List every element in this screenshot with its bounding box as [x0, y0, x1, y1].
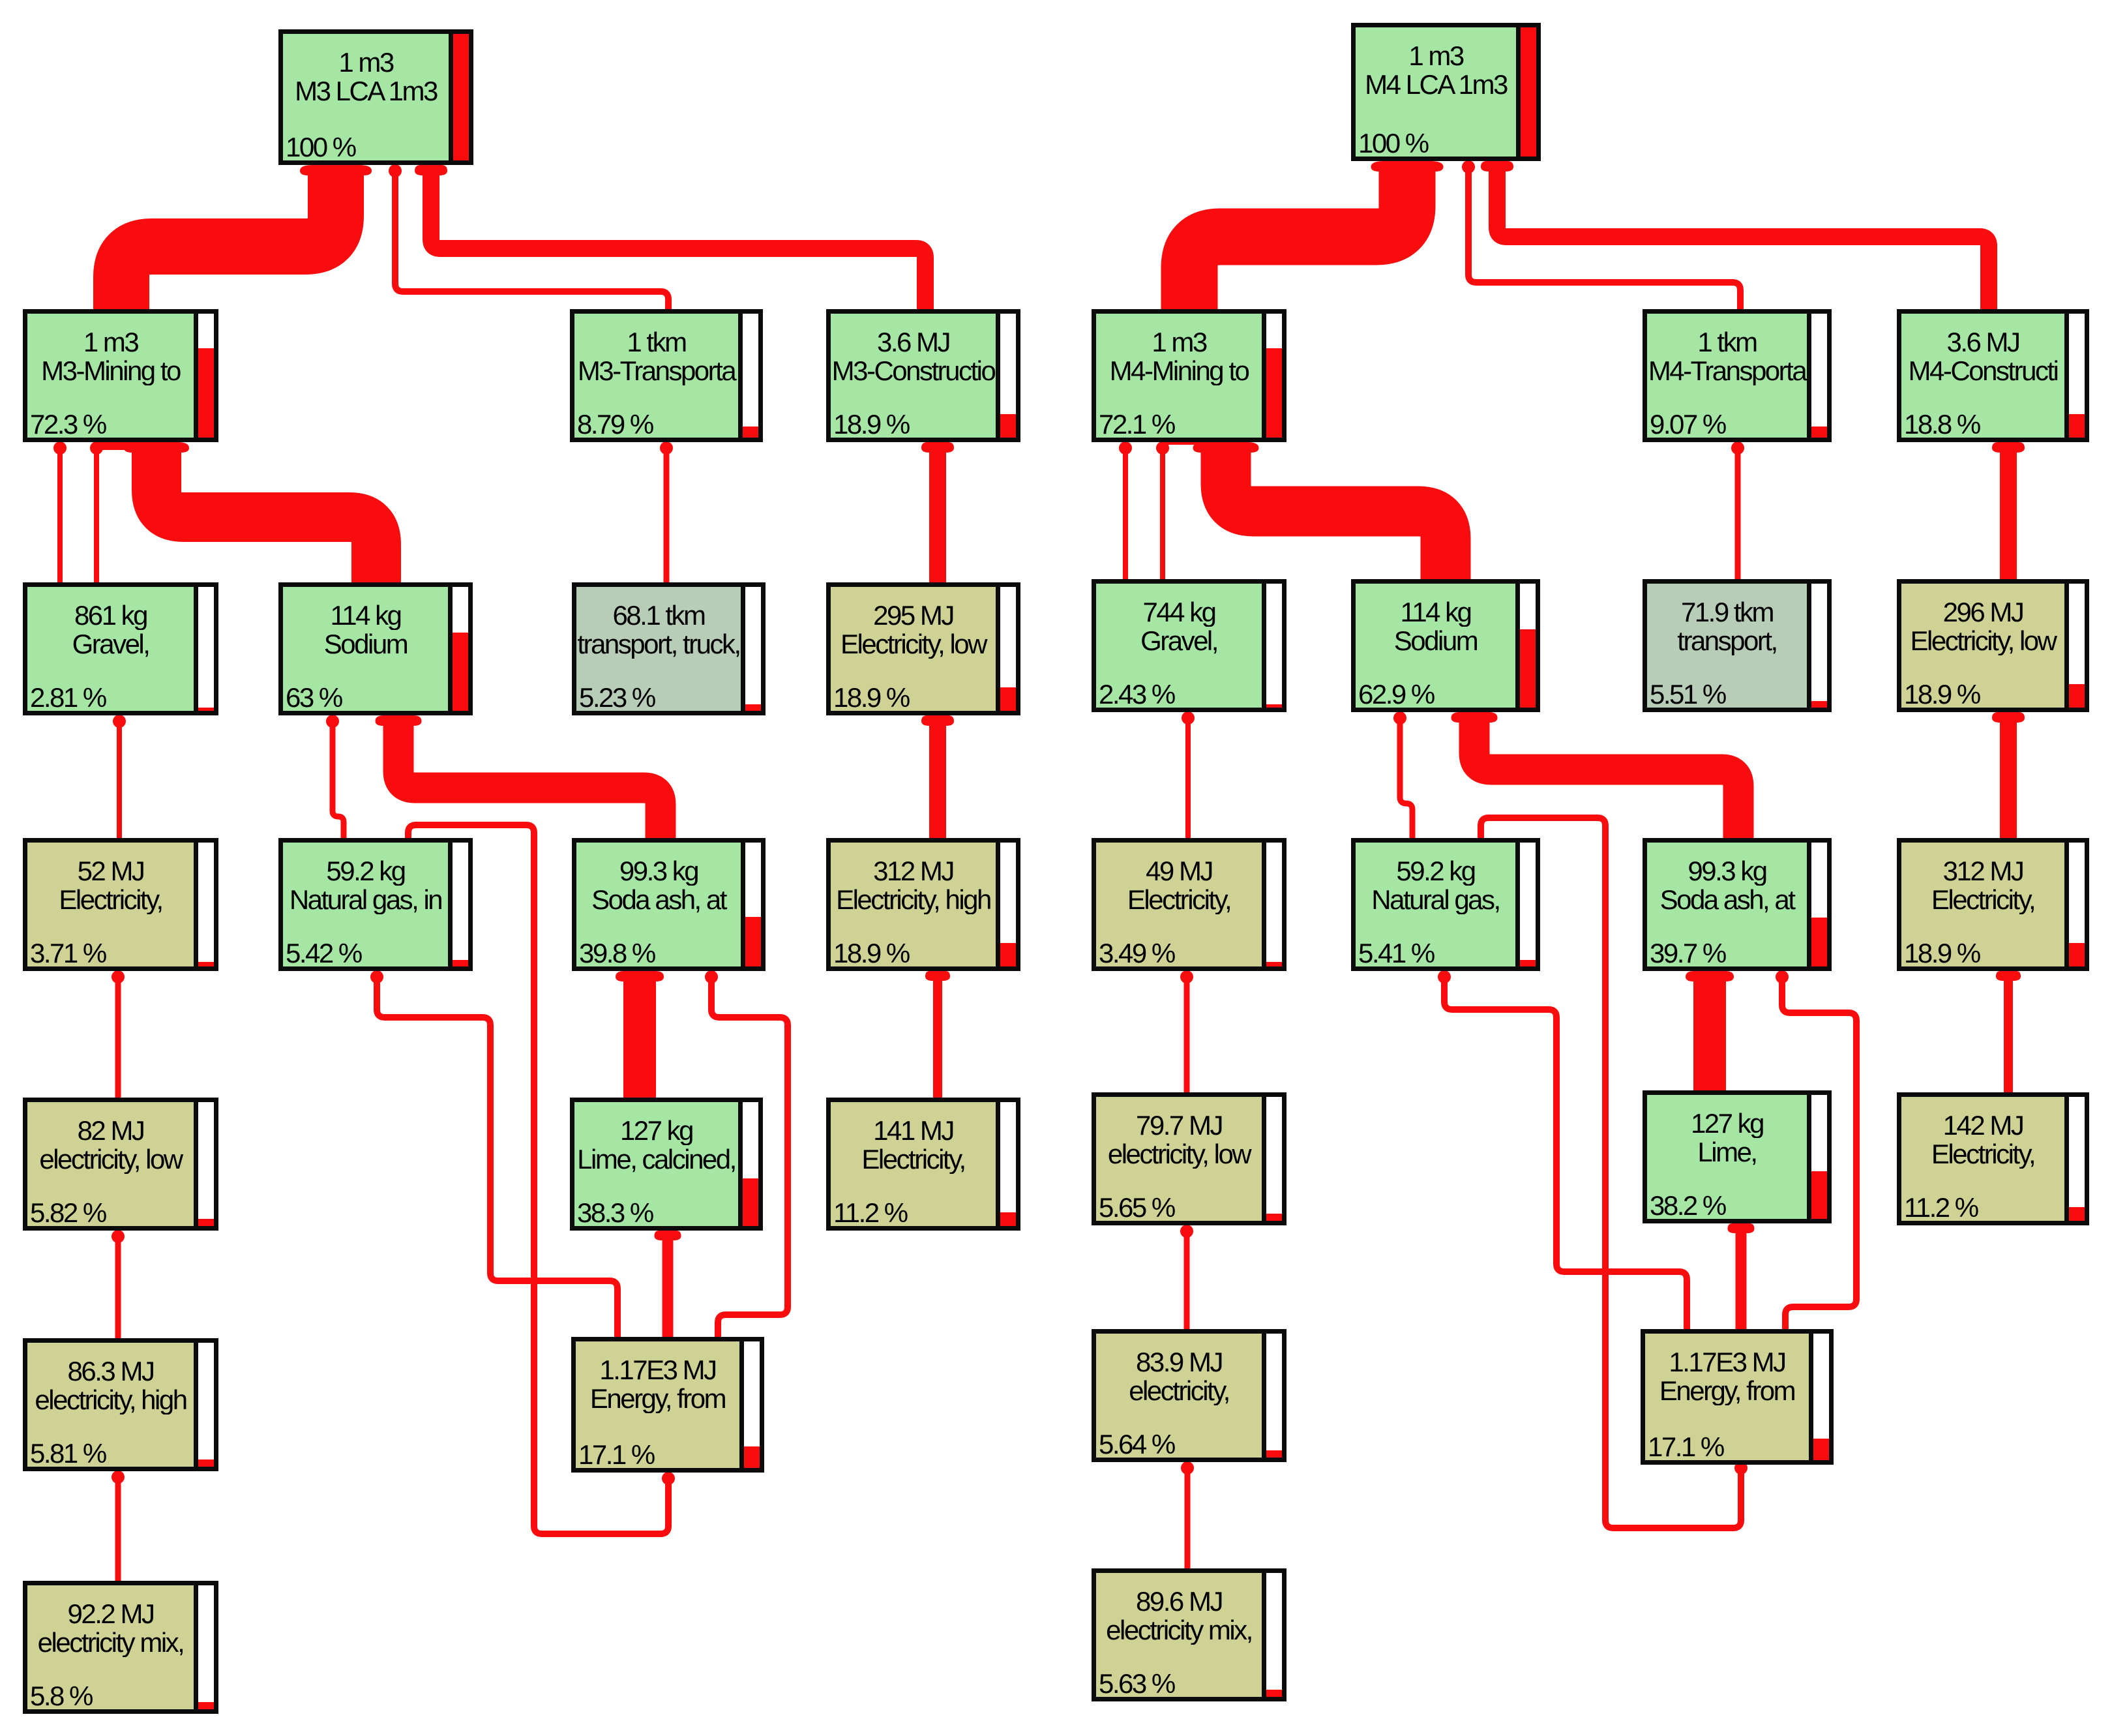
- wire flow Lime2 to Soda ash2 (38.2%): [1693, 976, 1726, 1097]
- process box D3: 99.3 kg Soda ash, at 39.8 %: [572, 838, 766, 971]
- wire flow M4-Mining to M4 LCA (72.1%): [1189, 164, 1407, 445]
- process box C7: 71.9 tkm transport, 5.51 %: [1643, 579, 1832, 712]
- wire flow M3-Transportation to M3 LCA (8.79%): [395, 170, 668, 314]
- process box E4: 141 MJ Electricity, 11.2 %: [826, 1098, 1020, 1231]
- wire flow transport truck to M3-Transportation (5.23%): [664, 447, 670, 585]
- wire flow Electricity312b to Electricity296 (18.9%): [2000, 717, 2017, 841]
- process box C1: 861 kg Gravel, 2.81 %: [23, 582, 218, 715]
- wire flow Electricity295 to M3-Construction (18.9%): [929, 447, 946, 585]
- wire flow Electricity296 to M4-Construction (18.9%): [2000, 447, 2017, 582]
- wire flow Electricity 52MJ to Gravel (3.71%): [117, 720, 122, 841]
- process box C8: 296 MJ Electricity, low 18.9 %: [1897, 579, 2089, 712]
- wire flow Electricity312 to Electricity295 (18.9%): [929, 720, 946, 841]
- wire flow Gravel to M3-Mining (2.81%): [57, 447, 63, 585]
- wire flow Energy2 to Soda ash2 (loop right): [1782, 976, 1856, 1332]
- process box E7: 127 kg Lime, 38.2 %: [1643, 1090, 1832, 1223]
- process box B8: 3.6 MJ M4-Constructi 18.8 %: [1897, 309, 2089, 442]
- process box B7: 1 tkm M4-Transporta 9.07 %: [1643, 309, 1832, 442]
- wire flow 2 Gravel744 to M4-Mining: [1160, 447, 1165, 582]
- process box C6: 114 kg Sodium 62.9 %: [1351, 579, 1540, 712]
- wire flow Electricity49 to Gravel744 (3.49%): [1185, 717, 1191, 841]
- process box D1: 52 MJ Electricity, 3.71 %: [23, 838, 218, 971]
- wire flow Sodium2 to M4-Mining (62.9%): [1226, 449, 1446, 586]
- wire flow Lime to Soda ash (38.3%): [623, 976, 656, 1104]
- process box D6: 59.2 kg Natural gas, 5.41 %: [1351, 838, 1540, 971]
- wire flow electricity79 to Electricity49 (5.65%): [1184, 976, 1190, 1095]
- wire flow Natural gas to Energy (long loop): [408, 825, 668, 1534]
- wire flow transport2 to M4-Transportation (5.51%): [1735, 447, 1741, 582]
- wire flow Natural gas to Sodium (5.42%): [333, 720, 344, 841]
- process box F5: 83.9 MJ electricity, 5.64 %: [1092, 1329, 1287, 1462]
- wire flow Energy to Lime (17.1%): [662, 1235, 674, 1339]
- process box D4: 312 MJ Electricity, high 18.9 %: [826, 838, 1020, 971]
- process box F1: 86.3 MJ electricity, high 5.81 %: [23, 1338, 218, 1471]
- process box G5: 89.6 MJ electricity mix, 5.63 %: [1092, 1568, 1287, 1701]
- process box B2: 1 tkm M3-Transporta 8.79 %: [570, 309, 763, 442]
- wire flow M4-Transportation to M4 LCA (9.07%): [1468, 166, 1740, 314]
- wire flow electricity82 to Electricity52 (5.82%): [115, 976, 121, 1100]
- process box D5: 49 MJ Electricity, 3.49 %: [1092, 838, 1287, 971]
- process box T1: 1 m3 M3 LCA 1m3 100 %: [278, 29, 473, 165]
- process box C2: 114 kg Sodium 63 %: [278, 582, 473, 715]
- process box G1: 92.2 MJ electricity mix, 5.8 %: [23, 1581, 218, 1714]
- process box B5: 1 m3 M4-Mining to 72.1 %: [1092, 309, 1287, 442]
- process box D7: 99.3 kg Soda ash, at 39.7 %: [1643, 838, 1832, 971]
- wire flow Energy to Natural gas (loop left): [377, 976, 617, 1339]
- wire flow Gravel744 to M4-Mining (2.43%): [1123, 447, 1128, 582]
- wire flow 2 Gravel to M3-Mining: [94, 447, 99, 585]
- wire flow Energy to Soda ash (loop right): [711, 976, 788, 1339]
- wire flow Natural gas2 to Energy2 (long loop): [1481, 818, 1741, 1528]
- process box E8: 142 MJ Electricity, 11.2 %: [1897, 1092, 2089, 1225]
- process box D2: 59.2 kg Natural gas, in 5.42 %: [278, 838, 473, 971]
- wire flow M3-Mining to M3 LCA (72.3%): [121, 168, 336, 450]
- process box D8: 312 MJ Electricity, 18.9 %: [1897, 838, 2089, 971]
- wire flow Electricity141 to Electricity312 (11.2%): [933, 976, 942, 1100]
- wire flow electricity83 to electricity79 (5.64%): [1184, 1230, 1190, 1332]
- process box F7: 1.17E3 MJ Energy, from 17.1 %: [1641, 1329, 1834, 1465]
- wire flow electricity86 to electricity82 (5.81%): [115, 1235, 121, 1341]
- wire flow M3-Construction to M3 LCA (18.9%): [431, 170, 925, 314]
- wire flow Energy2 to Natural gas2 (loop left): [1444, 976, 1687, 1332]
- process box B1: 1 m3 M3-Mining to 72.3 %: [23, 309, 218, 442]
- process box C4: 295 MJ Electricity, low 18.9 %: [826, 582, 1020, 715]
- wire flow Energy2 to Lime2 (17.1%): [1736, 1228, 1747, 1332]
- wire flow Electricity142 to Electricity312b (11.2%): [2004, 976, 2013, 1095]
- wire flow Natural gas2 to Sodium2 (5.41%): [1400, 717, 1412, 841]
- process box E5: 79.7 MJ electricity, low 5.65 %: [1092, 1092, 1287, 1225]
- process box E1: 82 MJ electricity, low 5.82 %: [23, 1098, 218, 1231]
- wire flow Soda ash to Sodium (39.8%): [398, 720, 661, 845]
- process box C5: 744 kg Gravel, 2.43 %: [1092, 579, 1287, 712]
- process box F3: 1.17E3 MJ Energy, from 17.1 %: [571, 1337, 764, 1473]
- process box T2: 1 m3 M4 LCA 1m3 100 %: [1351, 23, 1541, 161]
- process box E3: 127 kg Lime, calcined, 38.3 %: [570, 1098, 763, 1231]
- wire flow electricity92 to electricity86 (5.8%): [115, 1476, 121, 1583]
- process box B3: 3.6 MJ M3-Constructio 18.9 %: [826, 309, 1020, 442]
- wire flow M4-Construction to M4 LCA (18.8%): [1497, 166, 1989, 314]
- wire flow electricity89 to electricity83 (5.63%): [1185, 1467, 1191, 1571]
- wire flow Sodium to M3-Mining (63%): [156, 449, 376, 590]
- wire flow Soda ash2 to Sodium2 (39.7%): [1474, 717, 1738, 845]
- process box C3: 68.1 tkm transport, truck, 5.23 %: [572, 582, 766, 715]
